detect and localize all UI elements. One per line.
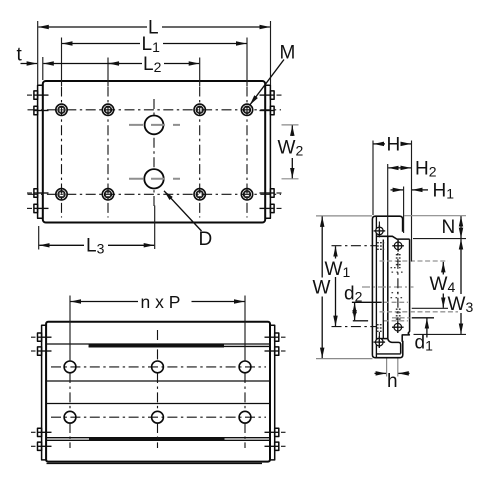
front bottom edge thick [47,462,263,464]
dimension d1 [412,318,434,354]
large hole centerline dashes upper [129,124,180,126]
carriage bottom flange inner edge [376,338,387,340]
dimension W2 [278,125,304,179]
svg-text:N: N [442,217,456,238]
rail top Z edge [376,236,409,239]
carriage screw bottom [374,336,386,348]
column centerlines [62,87,248,218]
rail screw top [392,240,404,252]
dimension L2 and t [17,45,200,87]
right tab pin lines [260,95,275,208]
rail screw bottom [392,321,404,333]
d1 hidden line [392,317,410,319]
svg-text:H: H [387,135,401,156]
front left tab pins [38,337,52,446]
bolt hole sockets [59,107,249,196]
carriage bottom flange top surface [376,353,400,355]
right end cap [265,85,270,218]
center vertical centerline x=154 [153,99,155,208]
svg-text:M: M [280,43,296,64]
front left tab stubs [31,337,36,446]
thread dots B [396,254,401,265]
lower groove lines [46,438,270,441]
svg-text:t: t [17,45,23,66]
svg-text:h: h [387,371,398,392]
dimension W1 [325,246,377,327]
left end cap [38,85,43,218]
bolt holes row2 [56,189,253,200]
front holes row2 [64,411,251,423]
rail left edge inner line [382,240,384,339]
front column centerlines [70,330,245,448]
front right tabs [275,333,279,450]
top view body plate [43,81,265,223]
carriage outline [372,216,402,358]
dimension d2 [344,284,382,321]
front right tab stubs [281,337,286,446]
interior texture dots [391,267,403,298]
dimension W [313,216,373,359]
thread dots A [377,242,384,250]
dimension n x P [70,292,245,362]
dimension L1 [62,34,248,86]
interior hidden line y261 [380,260,449,262]
label D with leader [164,191,212,250]
right tabs [270,91,274,213]
thread dots C [396,309,401,320]
svg-text:n x P: n x P [141,292,181,312]
dimension W4 [412,262,456,308]
left tabs (grease fittings) [34,91,38,213]
row centerline y=194.3 [28,193,282,195]
rail left edge [387,236,389,338]
row centerline y=109.8 [28,109,282,111]
svg-text:D: D [199,229,213,250]
front right tab pins [265,337,279,446]
left tab centerline stubs [27,95,32,208]
large hole D upper [145,116,164,135]
svg-text:W: W [313,278,331,299]
front left cap [42,325,47,460]
dimension H [373,135,412,262]
front holes row1 [64,361,251,373]
section centerline y287 [362,286,414,288]
upper seal slot thick bar [89,344,224,347]
dimension H2 [388,159,437,236]
rail foot [388,339,401,354]
dimension N [404,216,466,239]
front right cap [270,325,275,460]
large hole D lower [144,169,163,188]
front left tabs [38,333,42,450]
front view body [46,322,270,462]
bolt holes row1 [56,104,253,115]
interior hidden line y311.8 [380,311,459,313]
d2 hidden lines [384,302,408,321]
carriage screw top [374,225,386,237]
dimension L [38,18,271,86]
dimension W3 [414,239,474,334]
thread dots D [377,324,382,332]
middle line 2 [46,403,270,405]
dimension L3 [39,206,155,257]
upper groove lines [46,344,270,346]
front row centerlines [51,367,266,417]
rail right edge and bottom step [402,239,409,342]
label M with leader [250,43,296,106]
screw axis centerlines [379,222,398,352]
left tab pin lines [34,95,49,208]
dimension H1 [391,181,455,234]
large hole centerline dashes lower [129,178,180,180]
lower seal slot thick bar [89,438,225,441]
right tab centerline stubs [277,95,282,208]
dimension h [375,359,410,393]
middle line 1 [46,380,270,382]
